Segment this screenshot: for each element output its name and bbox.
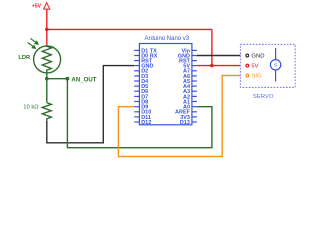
Arduino U1 left pin D7 xyxy=(134,94,148,100)
Arduino U1 right pin A4 xyxy=(183,84,197,90)
svg-text:LDR: LDR xyxy=(18,55,30,61)
Arduino U1 right pin A0 xyxy=(183,105,197,111)
Arduino U1 left pin D4 xyxy=(134,79,149,85)
Arduino U1 right pin Vin xyxy=(182,48,197,54)
junction LDR / resistor divider node xyxy=(45,77,49,81)
svg-text:+5V: +5V xyxy=(32,4,42,10)
servo pin GND terminal xyxy=(246,54,249,57)
servo pin SIG terminal xyxy=(246,74,249,77)
+5V power symbol xyxy=(44,3,50,9)
photoresistor LDR zigzag xyxy=(42,45,51,73)
junction 5V rail at servo feed xyxy=(210,64,214,68)
wire AN_OUT to Arduino A0 pin xyxy=(67,79,212,148)
op Arduino U1 body xyxy=(139,44,192,125)
Arduino U1 left pin D12 xyxy=(134,120,151,126)
junction +5V rail xyxy=(45,28,49,32)
node AN_OUT xyxy=(66,77,70,81)
svg-text:S: S xyxy=(274,63,277,69)
Arduino U1 left pin D9 xyxy=(134,105,148,111)
Arduino U1 right pin A1 xyxy=(183,99,197,105)
Arduino U1 right pin A3 xyxy=(183,89,197,95)
svg-text:D13: D13 xyxy=(180,120,190,126)
wire +5V stem down to LDR xyxy=(46,10,48,45)
svg-text:GND: GND xyxy=(251,54,264,60)
wire divider node to AN_OUT xyxy=(47,78,68,80)
svg-text:SERVO: SERVO xyxy=(253,94,274,100)
Arduino U1 left pin D8 xyxy=(134,99,148,105)
svg-text:5V: 5V xyxy=(251,64,258,70)
Arduino U1 left pin D1 TX xyxy=(134,48,157,54)
svg-text:D12: D12 xyxy=(141,120,151,126)
Arduino U1 right pin A7 xyxy=(183,69,197,75)
servo motor symbol circle xyxy=(270,60,280,70)
svg-text:SIG: SIG xyxy=(251,74,262,80)
Arduino U1 left pin D6 xyxy=(134,89,148,95)
resistor R1 zigzag xyxy=(42,103,51,121)
photoresistor LDR light arrow 1 xyxy=(30,38,38,44)
wire Arduino D9 to servo SIG xyxy=(118,76,245,157)
svg-text:10 kΩ: 10 kΩ xyxy=(23,105,39,111)
photoresistor LDR light arrow 2 xyxy=(28,43,36,49)
Arduino U1 left pin D2 xyxy=(134,69,148,75)
Arduino U1 left pin D5 xyxy=(134,84,148,90)
Arduino U1 left pin D10 xyxy=(134,110,151,116)
wire Arduino 5V pin to servo 5V pin xyxy=(197,65,246,67)
Arduino U1 right pin 5V xyxy=(183,64,197,70)
wire +5V drop to 5V row xyxy=(211,29,213,65)
Arduino U1 left pin D11 xyxy=(134,115,151,121)
Arduino U1 right pin GND xyxy=(178,53,197,59)
wire LDR bottom lead xyxy=(46,73,48,79)
Arduino U1 right pin A2 xyxy=(183,94,197,100)
wire Arduino GND pin to servo GND xyxy=(197,55,246,57)
servo motor shaft line lower xyxy=(275,70,277,82)
Arduino U1 left pin GND xyxy=(134,64,153,70)
Arduino U1 right pin RST xyxy=(179,59,197,65)
Arduino U1 right pin D13 xyxy=(180,120,197,126)
Arduino U1 right pin A5 xyxy=(183,79,197,85)
Arduino U1 right pin A6 xyxy=(183,74,197,80)
wire +5V rail horizontal xyxy=(47,28,212,30)
svg-text:Arduino Nano v3: Arduino Nano v3 xyxy=(144,36,189,42)
Arduino U1 left pin RST xyxy=(134,59,153,65)
Arduino U1 left pin D0 RX xyxy=(134,53,158,59)
Arduino U1 left pin D3 xyxy=(134,74,148,80)
servo motor shaft line upper xyxy=(275,48,277,60)
servo module M1 dashed enclosure xyxy=(240,44,295,87)
svg-text:AN_OUT: AN_OUT xyxy=(71,76,96,83)
servo pin 5V terminal xyxy=(246,64,249,67)
wire divider node down to resistor xyxy=(46,79,48,103)
Arduino U1 right pin 3V3 xyxy=(180,115,197,121)
wire GND: resistor bottom to Arduino GND pin xyxy=(47,66,134,143)
photoresistor LDR body circle xyxy=(34,46,61,73)
Arduino U1 right pin AREF xyxy=(175,110,197,116)
